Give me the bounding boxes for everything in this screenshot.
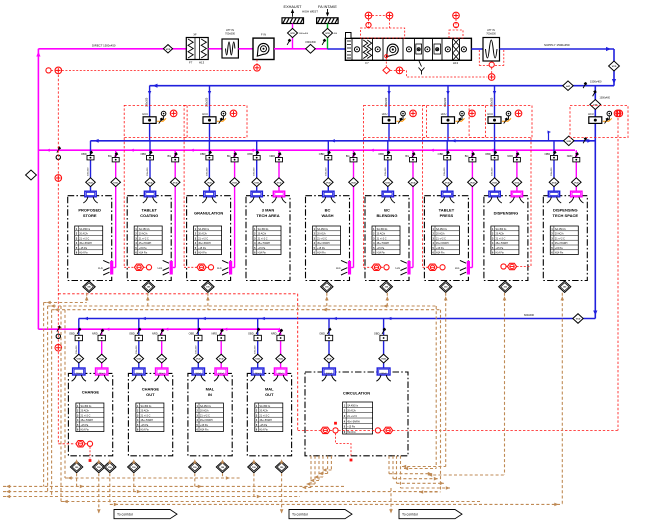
supply drop room R1-5 (327, 141, 329, 191)
svg-text:45+/-5%RH: 45+/-5%RH (377, 242, 390, 245)
low level grille room R1-6 (407, 261, 410, 275)
svg-text:HCU: HCU (382, 112, 388, 116)
svg-text:300x300: 300x300 (444, 167, 446, 176)
svg-text:VCD: VCD (566, 141, 571, 143)
svg-text:HCU: HCU (441, 112, 447, 116)
damper VCD-E2 (306, 44, 316, 53)
svg-text:100x1: 100x1 (136, 373, 143, 375)
table room R1-7 (431, 226, 459, 255)
svg-text:LLG: LLG (336, 267, 341, 270)
left sensors (55, 146, 62, 154)
svg-text:20 AC/h: 20 AC/h (555, 233, 564, 236)
svg-text:300x300: 300x300 (255, 345, 257, 354)
svg-text:H14 Fin: H14 Fin (258, 252, 267, 255)
pressure stabiliser room R1-3 (202, 281, 214, 292)
wire AHU inlet (328, 48, 346, 50)
supply drop room R2-3 (197, 319, 199, 369)
svg-text:+15 Pa: +15 Pa (377, 247, 385, 250)
svg-text:SA 450 l/s: SA 450 l/s (259, 405, 271, 408)
wire supply drop right (613, 49, 615, 86)
svg-text:+15 Pa: +15 Pa (200, 424, 208, 427)
red enclosure HCU4 (423, 105, 486, 137)
exhaust diffuser room R1-4 (273, 191, 284, 197)
supply diffuser room R1-7 (442, 191, 453, 197)
low level grille room R1-7 (467, 261, 470, 275)
LLE drop right h3 (440, 310, 442, 492)
supply drop CIRCULATION (383, 319, 385, 369)
supply drop room R1-7 (446, 141, 448, 191)
svg-text:DIRECT 1500x450: DIRECT 1500x450 (92, 44, 116, 48)
table room R1-1 (75, 226, 103, 255)
svg-text:300x300: 300x300 (385, 167, 387, 176)
pressure stabiliser room R1-6 (380, 281, 392, 292)
svg-text:21 +/-2 C: 21 +/-2 C (377, 237, 387, 240)
svg-text:VCD: VCD (411, 182, 416, 184)
svg-text:OBD: OBD (319, 152, 325, 156)
svg-text:BG: BG (227, 154, 231, 158)
svg-text:TABLET: TABLET (141, 208, 157, 213)
damper row2 main (573, 314, 583, 324)
svg-text:H14 Fin: H14 Fin (377, 252, 386, 255)
sensor pair room R1-3 (197, 264, 206, 270)
fan EF1 exhaust (253, 38, 274, 59)
svg-text:HCU: HCU (487, 112, 493, 116)
svg-text:20 AC/h: 20 AC/h (141, 410, 150, 413)
supply diffuser room R2-3 (192, 368, 204, 375)
damper VCD-S2 (609, 61, 620, 71)
svg-text:45+/-5%RH: 45+/-5%RH (259, 419, 272, 422)
svg-text:45+/-5%RH: 45+/-5%RH (141, 419, 154, 422)
svg-text:100x1: 100x1 (99, 373, 106, 375)
svg-text:STORE: STORE (83, 213, 97, 218)
svg-text:H13: H13 (199, 61, 205, 65)
svg-text:20 AC/h: 20 AC/h (496, 233, 505, 236)
svg-text:21 +/-2 C: 21 +/-2 C (258, 237, 268, 240)
svg-text:OBD: OBD (485, 152, 491, 156)
exhaust diffuser room R2-2 (156, 368, 168, 375)
red enclosure HCU2 (184, 105, 247, 137)
svg-text:VCD: VCD (219, 359, 224, 361)
svg-text:CIRCULATION: CIRCULATION (343, 391, 370, 396)
svg-text:600x6: 600x6 (381, 373, 388, 375)
room R1-4 3 MAN TECH AREA (246, 196, 290, 281)
sensor pair room R1-7 (428, 264, 437, 270)
svg-text:XF: XF (193, 33, 197, 37)
svg-text:VCD: VCD (576, 319, 581, 321)
supply drop room R2-2 (138, 319, 140, 369)
room R1-1 PROPOSED STORE (68, 196, 112, 281)
svg-text:+15 Pa: +15 Pa (258, 247, 266, 250)
low level grille room R1-2 (170, 261, 173, 275)
exhaust drop room R2-3 (220, 329, 222, 368)
table room R1-5 (313, 226, 341, 255)
svg-text:OBD: OBD (319, 332, 325, 336)
svg-text:3 MAN: 3 MAN (262, 208, 275, 213)
exhaust drop room R1-9 (575, 150, 577, 191)
svg-text:VCD: VCD (255, 359, 260, 361)
red sensors CHANGE (58, 443, 75, 445)
svg-text:45+/-5%RH: 45+/-5%RH (317, 242, 330, 245)
HCU branch 3 (388, 86, 390, 141)
svg-text:SA 450 l/s: SA 450 l/s (258, 228, 270, 231)
svg-text:21 +/-2 C: 21 +/-2 C (81, 414, 91, 417)
svg-text:FA INTAKE: FA INTAKE (318, 5, 337, 9)
supply diffuser room R1-1 (85, 191, 96, 197)
svg-text:45+/-5%RH: 45+/-5%RH (496, 242, 509, 245)
supply diffuser room R1-5 (323, 191, 334, 197)
LLE up arrows under PS row1 (85, 296, 89, 300)
svg-text:VCD: VCD (445, 182, 450, 184)
svg-text:300x300: 300x300 (325, 167, 327, 176)
svg-text:+15 Pa: +15 Pa (317, 247, 325, 250)
HCU branch 1 (149, 86, 151, 141)
pressure stabiliser room R1-7 (440, 281, 452, 292)
svg-text:1000x400: 1000x400 (600, 97, 611, 100)
wire exhaust main row2 (38, 328, 279, 330)
sensor cluster above AHU (red) (361, 28, 405, 38)
svg-text:SA 450 l/s: SA 450 l/s (200, 405, 212, 408)
svg-text:BC: BC (325, 208, 331, 213)
table room R1-3 (194, 226, 222, 255)
LLE header h1 (44, 302, 87, 304)
supply drop CIRCULATION (328, 319, 330, 369)
svg-text:20 AC/h: 20 AC/h (198, 233, 207, 236)
svg-text:LLG: LLG (98, 267, 103, 270)
red boundary line (58, 293, 297, 295)
svg-text:21 +/-2 C: 21 +/-2 C (200, 414, 210, 417)
exhaust drop room R2-4 (280, 329, 282, 368)
supply drop room R2-4 (257, 319, 259, 369)
banner TO CORRIDOR 1 (114, 510, 177, 519)
room R2-4 MAL OUT (247, 373, 291, 455)
svg-text:VCD: VCD (351, 182, 356, 184)
svg-text:LLG: LLG (217, 267, 222, 270)
svg-text:600x600: 600x600 (524, 313, 535, 317)
svg-text:SA 450 l/s: SA 450 l/s (347, 404, 359, 407)
svg-text:VCD: VCD (381, 359, 386, 361)
svg-text:BG: BG (346, 154, 350, 158)
room R1-9 DISPENSING TECH SPACE (543, 196, 587, 281)
wire exhaust duct (238, 48, 253, 50)
svg-text:OBD: OBD (200, 152, 206, 156)
svg-text:300x300: 300x300 (195, 345, 197, 354)
low level grille room R1-1 (110, 261, 113, 275)
svg-text:TABLET: TABLET (439, 208, 455, 213)
svg-text:LLG: LLG (158, 267, 163, 270)
svg-text:MAL: MAL (265, 387, 274, 392)
svg-text:H14 Fin: H14 Fin (259, 429, 268, 432)
supply diffuser room R1-3 (204, 191, 215, 197)
wire supply sub-main row1 (90, 140, 595, 142)
svg-text:+15 Pa: +15 Pa (496, 247, 504, 250)
svg-text:VCD: VCD (278, 359, 283, 361)
exhaust riser room R1-5 (353, 150, 355, 267)
room R1-8 DISPENSING (484, 196, 528, 281)
svg-text:45+/-5%RH: 45+/-5%RH (81, 419, 94, 422)
svg-text:100x1: 100x1 (159, 373, 166, 375)
exhaust riser room R1-3 (234, 150, 236, 267)
svg-text:VCD: VCD (515, 182, 520, 184)
svg-text:VCD: VCD (327, 359, 332, 361)
svg-text:20 AC/h: 20 AC/h (139, 233, 148, 236)
svg-text:SA 450 l/s: SA 450 l/s (81, 405, 93, 408)
svg-text:20 AC/h: 20 AC/h (436, 233, 445, 236)
svg-text:300x300: 300x300 (206, 167, 208, 176)
exhaust diffuser room R2-1 (96, 368, 108, 375)
attenuator ATT-E (222, 39, 238, 58)
svg-text:VCD: VCD (166, 49, 171, 51)
table room R1-8 (491, 226, 519, 255)
svg-text:IN: IN (208, 392, 212, 397)
svg-text:F7: F7 (365, 61, 369, 65)
svg-text:PRESS: PRESS (440, 213, 454, 218)
svg-text:21 +/-2 C: 21 +/-2 C (259, 414, 269, 417)
LLE stub room R1-1 (86, 293, 88, 303)
svg-text:WASH: WASH (322, 213, 334, 218)
svg-text:20 AC/h: 20 AC/h (259, 410, 268, 413)
svg-text:VCD: VCD (470, 182, 475, 184)
table room R2-4 (255, 403, 283, 432)
svg-text:VCD: VCD (277, 182, 282, 184)
pressure stabiliser room R1-2 (142, 281, 154, 292)
LLE stubs under PS row2 (76, 473, 78, 486)
svg-text:HCU: HCU (142, 112, 148, 116)
svg-text:300x300: 300x300 (76, 345, 78, 354)
svg-text:VCD: VCD (113, 182, 118, 184)
wire exhaust duct (208, 48, 222, 50)
sensor pair room R1-2 (134, 264, 143, 270)
exhaust diffuser room R1-8 (511, 191, 522, 197)
svg-text:20 AC/h: 20 AC/h (347, 410, 356, 413)
svg-text:VCD: VCD (232, 182, 237, 184)
svg-text:OBD: OBD (129, 332, 135, 336)
exhaust diffuser room R2-3 (215, 368, 227, 375)
room R1-3 GRANULATION (187, 196, 231, 281)
svg-text:SA 450 l/s: SA 450 l/s (317, 228, 329, 231)
svg-text:SA 450 l/s: SA 450 l/s (139, 228, 151, 231)
svg-text:20 AC/h: 20 AC/h (200, 410, 209, 413)
svg-text:OBD: OBD (189, 332, 195, 336)
exhaust drop room R1-8 (516, 150, 518, 191)
red enclosure HCU3 (364, 105, 427, 137)
svg-text:+15 Pa: +15 Pa (141, 424, 149, 427)
table room R2-2 (136, 403, 164, 432)
svg-text:To corridor: To corridor (292, 513, 309, 517)
svg-text:ATT IN: ATT IN (226, 28, 234, 32)
red control verticals (57, 70, 59, 443)
supply diffuser CIRCULATION (323, 368, 336, 375)
LLE stub room R1-5 (326, 293, 328, 310)
svg-text:H13: H13 (453, 61, 459, 65)
svg-text:NRD: NRD (269, 154, 275, 158)
svg-text:20 AC/h: 20 AC/h (258, 233, 267, 236)
room R1-6 BC BLENDING (365, 196, 409, 281)
svg-text:700x500: 700x500 (225, 32, 236, 36)
LLE riser room R1-8 (504, 293, 506, 475)
pressure stabiliser room R1-8 (499, 281, 511, 292)
svg-text:BG: BG (168, 154, 172, 158)
svg-text:21 +/-2 C: 21 +/-2 C (555, 237, 565, 240)
LLE group under CIRCULATION left (310, 456, 312, 488)
svg-text:+15 Pa: +15 Pa (139, 247, 147, 250)
svg-text:LLG: LLG (455, 267, 460, 270)
LLE group under CIRCULATION right (388, 456, 390, 474)
svg-text:45+/-5%RH: 45+/-5%RH (436, 242, 449, 245)
wire fresh air drop (green) (327, 24, 329, 50)
wire exhaust to louvre (274, 48, 328, 50)
svg-text:To corridor: To corridor (402, 513, 419, 517)
wire exhaust main EX1 (magenta) top-left (38, 48, 186, 50)
banner TO CORRIDOR 3 (399, 510, 462, 519)
AHU supply unit (345, 33, 471, 65)
attenuator ATT-S supply (483, 38, 500, 62)
supply diffuser room R1-4 (251, 191, 262, 197)
svg-text:TECH AREA: TECH AREA (256, 213, 279, 218)
svg-text:H14 Fin: H14 Fin (79, 252, 88, 255)
svg-text:OBD: OBD (81, 152, 87, 156)
LLE header h3 (52, 309, 441, 311)
fresh air louvre (317, 18, 339, 24)
svg-text:1500x400: 1500x400 (590, 79, 602, 83)
svg-text:45+/-5%RH: 45+/-5%RH (198, 242, 211, 245)
LLE drop right h2 (435, 306, 437, 469)
arrow intake down (327, 9, 329, 15)
wire exhaust louvre riser (292, 24, 294, 49)
HCU branch 2 (209, 86, 211, 141)
svg-text:TECH SPACE: TECH SPACE (553, 213, 579, 218)
exhaust diffuser room R1-9 (571, 191, 582, 197)
svg-text:45+/-5%RH: 45+/-5%RH (139, 242, 152, 245)
svg-text:DISPENSING: DISPENSING (494, 211, 519, 216)
svg-text:H14 Fin: H14 Fin (81, 429, 90, 432)
svg-text:VCD: VCD (612, 66, 617, 68)
exhaust riser room R1-1 (115, 150, 117, 267)
svg-text:+15 Pa: +15 Pa (555, 247, 563, 250)
low level grille room R1-3 (229, 261, 232, 275)
svg-text:300x300: 300x300 (136, 345, 138, 354)
svg-text:OBD: OBD (374, 332, 380, 336)
svg-text:LLG: LLG (395, 267, 400, 270)
table room R1-9 (550, 226, 578, 255)
red enclosure HCU5 (469, 105, 532, 137)
pressure stabiliser room R1-1 (83, 281, 95, 292)
supply drop room R1-8 (494, 141, 496, 191)
svg-text:NRD: NRD (567, 154, 573, 158)
sensor pair room R1-6 (372, 264, 381, 270)
LLE riser room R1-9 (561, 293, 563, 505)
svg-text:VCD: VCD (325, 33, 330, 35)
supply diffuser CIRCULATION (377, 368, 390, 375)
drain symbol (419, 61, 422, 67)
svg-text:NRD: NRD (211, 332, 217, 336)
svg-text:OUT: OUT (265, 392, 274, 397)
svg-text:20 AC/h: 20 AC/h (377, 233, 386, 236)
svg-text:VCD: VCD (254, 182, 259, 184)
svg-text:+15 Pa: +15 Pa (81, 424, 89, 427)
svg-text:600x6: 600x6 (326, 373, 333, 375)
svg-text:+15 Pa: +15 Pa (347, 426, 355, 429)
svg-text:CHANGE: CHANGE (82, 390, 100, 395)
LLE up arrows under PS row2 (75, 459, 79, 463)
svg-text:H14 Fin: H14 Fin (555, 252, 564, 255)
svg-text:VCD: VCD (290, 33, 295, 35)
svg-text:DISPENSING: DISPENSING (553, 208, 578, 213)
room R1-5 BC WASH (306, 196, 350, 281)
supply drop room R1-4 (256, 141, 258, 191)
svg-text:21 +/-2 C: 21 +/-2 C (79, 237, 89, 240)
room R2-3 MAL IN (188, 373, 232, 455)
wire supply row2 riser (594, 86, 596, 319)
svg-text:To corridor: To corridor (117, 513, 134, 517)
table room R1-2 (134, 226, 162, 255)
svg-text:300x300: 300x300 (492, 167, 494, 176)
svg-text:45+/-5%RH: 45+/-5%RH (79, 242, 92, 245)
supply diffuser room R1-6 (382, 191, 393, 197)
svg-text:F7: F7 (189, 61, 193, 65)
supply drop room R1-2 (149, 141, 151, 191)
room R2-2 CHANGE OUT (128, 373, 172, 455)
svg-text:NRD: NRD (271, 332, 277, 336)
damper on sub-main (564, 136, 574, 146)
svg-text:100x1: 100x1 (218, 373, 225, 375)
svg-text:+15 Pa: +15 Pa (259, 424, 267, 427)
room R2-1 CHANGE (68, 373, 112, 455)
LLE header h2 (48, 305, 437, 307)
svg-text:BG: BG (108, 154, 112, 158)
red sensors CIRCULATION (298, 429, 321, 431)
svg-text:100x1: 100x1 (278, 373, 285, 375)
svg-text:VCD: VCD (76, 359, 81, 361)
svg-text:VCD: VCD (207, 182, 212, 184)
exhaust drop room R1-4 (278, 150, 280, 191)
LLE stub room R1-6 (386, 293, 388, 306)
svg-text:21 +/-2 C: 21 +/-2 C (198, 237, 208, 240)
supply drop room R1-6 (387, 141, 389, 191)
sensor pair room R1-8 (501, 264, 506, 269)
low level grille room R1-5 (348, 261, 351, 275)
svg-text:100x1: 100x1 (255, 373, 262, 375)
svg-text:OBD: OBD (69, 332, 75, 336)
LLE riser room R1-7 (445, 293, 447, 467)
svg-text:F IN: F IN (261, 33, 266, 37)
exhaust drop room R2-2 (161, 329, 163, 368)
svg-text:VCD: VCD (173, 182, 178, 184)
damper VCD-E3 louvre (288, 28, 298, 37)
supply diffuser room R1-9 (548, 191, 559, 197)
table room R2-3 (195, 403, 223, 432)
LLE stub room R1-2 (147, 293, 149, 306)
svg-text:SA 450 l/s: SA 450 l/s (555, 228, 567, 231)
svg-text:700x500: 700x500 (486, 33, 496, 36)
red control line top-left (46, 68, 51, 73)
wire exhaust main row1 (38, 149, 575, 151)
HCU branch 6 right (589, 117, 602, 124)
arrow exhaust up (292, 10, 294, 17)
svg-text:20 AC/h: 20 AC/h (81, 410, 90, 413)
exhaust diffuser room R2-4 (274, 368, 286, 375)
svg-text:45+/-5%RH: 45+/-5%RH (200, 419, 213, 422)
table room R2-1 (76, 403, 104, 432)
svg-text:VCD: VCD (136, 359, 141, 361)
svg-text:H14 Fin: H14 Fin (139, 252, 148, 255)
supply drop room R1-9 (553, 141, 555, 191)
svg-text:21 +/-2 C: 21 +/-2 C (317, 237, 327, 240)
svg-text:VCD: VCD (88, 182, 93, 184)
svg-text:OBD: OBD (438, 152, 444, 156)
svg-text:+15 Pa: +15 Pa (436, 247, 444, 250)
damper VCD-S1 louvre (323, 28, 333, 37)
room R1-7 TABLET PRESS (424, 196, 468, 281)
